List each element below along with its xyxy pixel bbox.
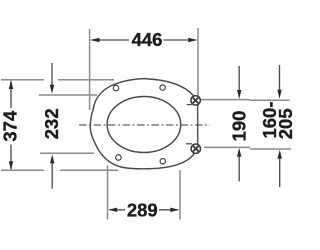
- extension line 160-205 bottom: [250, 148, 291, 150]
- svg-text:374: 374: [0, 110, 20, 142]
- svg-text:446: 446: [132, 29, 163, 50]
- extension line 190 top: [201, 99, 251, 101]
- extension line 232 bottom: [40, 152, 94, 154]
- bumper hole top-right: [160, 85, 165, 90]
- extension line 190 bottom: [204, 146, 250, 148]
- dimension line 190 (external arrows): [238, 66, 240, 91]
- svg-text:190: 190: [228, 111, 249, 142]
- dimension line 232 (external arrows): [51, 63, 53, 86]
- hinge screw bottom: [191, 144, 200, 153]
- lug ledge bottom: [186, 143, 192, 145]
- extension line 374 bottom: [1, 169, 118, 171]
- dimension line 374 (arrows inside, text gap): [10, 82, 12, 170]
- extension line 232 top: [39, 94, 97, 96]
- extension line 289 left: [107, 166, 109, 220]
- hinge screw top: [191, 96, 200, 105]
- seat inner ring: [107, 97, 181, 153]
- svg-text:289: 289: [127, 200, 158, 221]
- bumper hole bottom-right: [160, 159, 165, 164]
- dimension line 446: [92, 39, 196, 41]
- bumper hole bottom-left: [116, 155, 122, 161]
- seat hinge-side flat edge: [197, 96, 199, 152]
- dimension line 160-205 (external arrows): [279, 65, 281, 90]
- extension line 289 right: [179, 170, 181, 220]
- extension line 160-205 top: [250, 99, 290, 101]
- extension line 446 right / seat hinge edge upper: [197, 28, 199, 96]
- extension line 446 left: [89, 29, 91, 110]
- seat outer outline: top right to hinge: [144, 79, 193, 96]
- lug ledge top: [187, 104, 192, 106]
- svg-text:205: 205: [275, 108, 296, 139]
- bumper hole top-left: [113, 85, 119, 91]
- extension line 374 top: [1, 79, 114, 81]
- svg-text:232: 232: [41, 108, 62, 139]
- seat outer outline: bottom right from hinge: [143, 153, 194, 169]
- dimension line 289: [110, 209, 179, 211]
- center line (dash-dot): [79, 124, 210, 126]
- seat outer outline: left oval: [90, 79, 144, 169]
